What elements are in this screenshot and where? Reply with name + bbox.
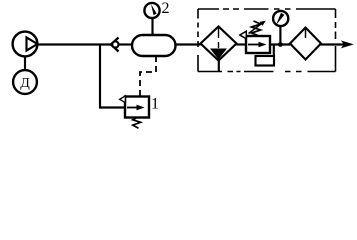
regulator adjust arrow — [249, 24, 262, 34]
output wire — [321, 43, 346, 45]
output pressure gauge circle — [273, 11, 288, 26]
regulator body — [246, 36, 270, 53]
air service unit enclosure (dash-dot box) — [198, 8, 336, 10]
filter drain line — [218, 59, 220, 72]
wire regulator to lubricator — [270, 43, 290, 45]
pump triangle — [27, 37, 38, 50]
pressure gauge 2 circle — [144, 3, 159, 18]
filter diamond — [201, 27, 237, 61]
wire filter to regulator — [237, 43, 247, 45]
check valve ball — [112, 41, 118, 47]
lubricator drip line — [305, 29, 307, 39]
gauge 2 needle — [151, 4, 157, 15]
wire pump to check valve — [37, 43, 111, 45]
output gauge needle — [276, 13, 284, 25]
valve 1 vent triangle — [120, 96, 126, 103]
svg-text:2: 2 — [162, 0, 170, 17]
pilot line receiver to valve 1 (dashed) — [140, 56, 156, 97]
pilot box connector — [273, 45, 275, 57]
filter element line — [218, 27, 220, 48]
regulator pilot box — [256, 56, 275, 66]
wire pump-motor — [24, 56, 26, 70]
output flow arrowhead — [341, 40, 354, 48]
valve 1 flow arrow — [127, 107, 138, 109]
wire check valve to receiver — [119, 43, 133, 45]
wire receiver to gauge 2 — [151, 18, 153, 35]
valve 1 spring — [133, 118, 141, 129]
branch wire down to valve 1 — [100, 45, 125, 108]
regulator spring — [252, 21, 261, 36]
svg-text:Д: Д — [20, 76, 30, 91]
receiver (oval) — [132, 35, 176, 56]
lubricator diamond — [290, 28, 321, 60]
motor circle — [13, 70, 37, 94]
pump (compressor) circle — [13, 32, 38, 57]
wire junction to gauge — [279, 26, 281, 45]
filter condensate triangle — [210, 49, 227, 60]
wire receiver to unit — [176, 43, 201, 45]
junction dot — [278, 42, 283, 47]
svg-text:1: 1 — [151, 96, 159, 113]
regulator flow arrow — [248, 44, 260, 46]
check valve seat — [111, 38, 119, 52]
regulator vent triangle — [240, 31, 247, 39]
safety valve 1 body — [125, 97, 149, 118]
